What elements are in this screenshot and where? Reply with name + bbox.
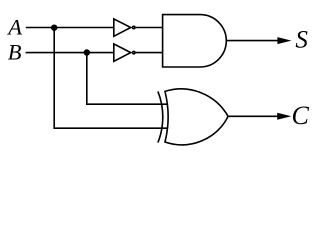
junction dot on B (84, 49, 90, 55)
wire inverter U1 output to AND (136, 27, 163, 29)
wire A tap horizontal to XOR lower input (53, 127, 167, 129)
junction dot on A (51, 25, 57, 31)
wire B tap horizontal to XOR upper input (86, 103, 168, 105)
wire C output (228, 115, 279, 117)
arrowhead S output (277, 37, 291, 44)
svg-text:A: A (6, 14, 22, 39)
wire B input (26, 52, 114, 54)
inverter U1 (NOT gate on A line) (114, 19, 135, 36)
wire A input (26, 27, 114, 29)
arrowhead C output (277, 113, 291, 120)
svg-text:C: C (292, 101, 310, 130)
XOR gate U4 body (165, 89, 228, 145)
svg-text:B: B (8, 40, 22, 65)
AND gate U3 (163, 15, 227, 67)
inverter U2 (NOT gate on B line) (114, 44, 135, 61)
wire inverter U2 output to AND (136, 52, 163, 54)
wire A tap vertical (53, 28, 55, 129)
wire B tap vertical (86, 53, 88, 105)
wire S output (226, 40, 279, 42)
svg-text:S: S (295, 27, 308, 54)
XOR gate U4 extra input curve (158, 91, 163, 142)
